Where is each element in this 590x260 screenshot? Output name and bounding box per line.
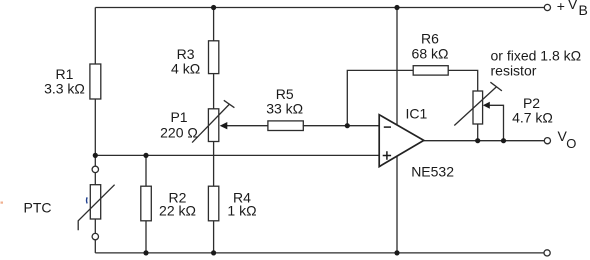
resistor R6 xyxy=(413,66,448,75)
svg-text:22 kΩ: 22 kΩ xyxy=(159,203,196,219)
svg-text:PTC: PTC xyxy=(24,200,52,216)
wire op-amp supply vertical (top rail to bottom rail) xyxy=(396,8,398,253)
svg-text:3.3 kΩ: 3.3 kΩ xyxy=(44,81,85,97)
op-amp minus input symbol xyxy=(384,126,391,128)
arrowhead P2 wiper xyxy=(483,102,490,109)
thermistor PTC diagonal stroke xyxy=(78,185,114,231)
terminal VO circle xyxy=(544,138,550,144)
wire R5 to op-amp minus input xyxy=(303,125,379,127)
wire left branch top (rail to R1) xyxy=(94,8,96,65)
junction top rail / supply vertical xyxy=(394,5,399,10)
svg-text:R6: R6 xyxy=(421,31,439,47)
junction output / P2 bottom xyxy=(475,138,480,143)
wire PTC top circle to PTC body xyxy=(94,173,96,185)
svg-text:1 kΩ: 1 kΩ xyxy=(227,203,256,219)
op-amp U1 triangle xyxy=(379,115,424,167)
junction bottom rail / supply vertical xyxy=(394,250,399,255)
wire R1 bottom to mid rail xyxy=(94,99,96,155)
resistor R5 xyxy=(268,121,303,131)
terminal bottom-right circle xyxy=(544,250,550,256)
svg-text:NE532: NE532 xyxy=(411,163,454,179)
wire R4 bottom xyxy=(213,221,215,253)
svg-text:V: V xyxy=(568,0,578,12)
terminal +VB circle xyxy=(544,4,550,10)
junction mid rail / R1-PTC xyxy=(93,153,98,158)
svg-text:P1: P1 xyxy=(170,109,187,125)
svg-text:resistor: resistor xyxy=(491,62,537,78)
junction mid rail / R2 xyxy=(143,153,148,158)
wire op-amp output line xyxy=(424,140,545,142)
svg-text:or fixed 1.8 kΩ: or fixed 1.8 kΩ xyxy=(491,48,582,64)
svg-text:O: O xyxy=(566,136,576,151)
junction bottom rail / R2 xyxy=(143,250,148,255)
svg-text:IC1: IC1 xyxy=(406,105,428,121)
svg-text:P2: P2 xyxy=(523,95,540,111)
resistor R1 xyxy=(90,64,101,99)
thermistor PTC body xyxy=(90,185,100,219)
svg-text:+: + xyxy=(557,0,565,14)
wire P1 wiper to R5 xyxy=(227,125,269,127)
wire P2 wiper to output line xyxy=(489,105,503,140)
wire R2 bottom xyxy=(145,221,147,253)
svg-text:220 Ω: 220 Ω xyxy=(160,125,198,141)
artifact blue cursor mark xyxy=(86,197,89,203)
resistor R2 xyxy=(141,186,152,221)
terminal PTC top circle xyxy=(92,166,98,172)
potentiometer P2 body xyxy=(473,91,483,124)
wire P2 bottom to output line xyxy=(477,124,479,141)
op-amp plus input symbol xyxy=(383,151,391,159)
wire feedback up from minus node xyxy=(347,70,413,125)
svg-text:33 kΩ: 33 kΩ xyxy=(266,100,303,116)
wire R3 top (top rail to R3) xyxy=(213,8,215,41)
svg-text:B: B xyxy=(579,2,588,18)
wire bottom rail xyxy=(95,252,544,254)
wire R2 top xyxy=(145,155,147,186)
terminal PTC bottom circle xyxy=(92,233,98,239)
junction top rail / R3 xyxy=(211,5,216,10)
artifact orange dot left edge xyxy=(1,202,4,204)
wire mid rail (plus-input rail) xyxy=(95,154,379,156)
wire R6 right to P2 top xyxy=(448,70,478,91)
wire R3 bottom to P1 top xyxy=(213,74,215,109)
svg-text:68 kΩ: 68 kΩ xyxy=(412,46,449,62)
potentiometer P2 diagonal with T-bar xyxy=(454,82,502,125)
arrowhead P1 wiper xyxy=(220,122,228,129)
junction output / P2 wiper xyxy=(501,138,506,143)
svg-text:4.7 kΩ: 4.7 kΩ xyxy=(512,110,553,126)
wire top supply rail xyxy=(95,7,544,9)
potentiometer P1 body xyxy=(208,109,218,142)
junction minus node / feedback xyxy=(345,123,350,128)
wire mid rail to PTC top terminal xyxy=(94,155,96,166)
svg-text:4 kΩ: 4 kΩ xyxy=(171,61,200,77)
wire P1 bottom to R4 top (crosses mid rail, no junction) xyxy=(213,142,215,187)
resistor R3 xyxy=(209,41,219,74)
potentiometer P1 diagonal with T-bar xyxy=(192,100,234,142)
junction bottom rail / R4 xyxy=(211,250,216,255)
resistor R4 xyxy=(208,186,218,221)
wire PTC body to bottom circle xyxy=(94,219,96,233)
wire PTC bottom circle to bottom rail xyxy=(94,240,96,253)
